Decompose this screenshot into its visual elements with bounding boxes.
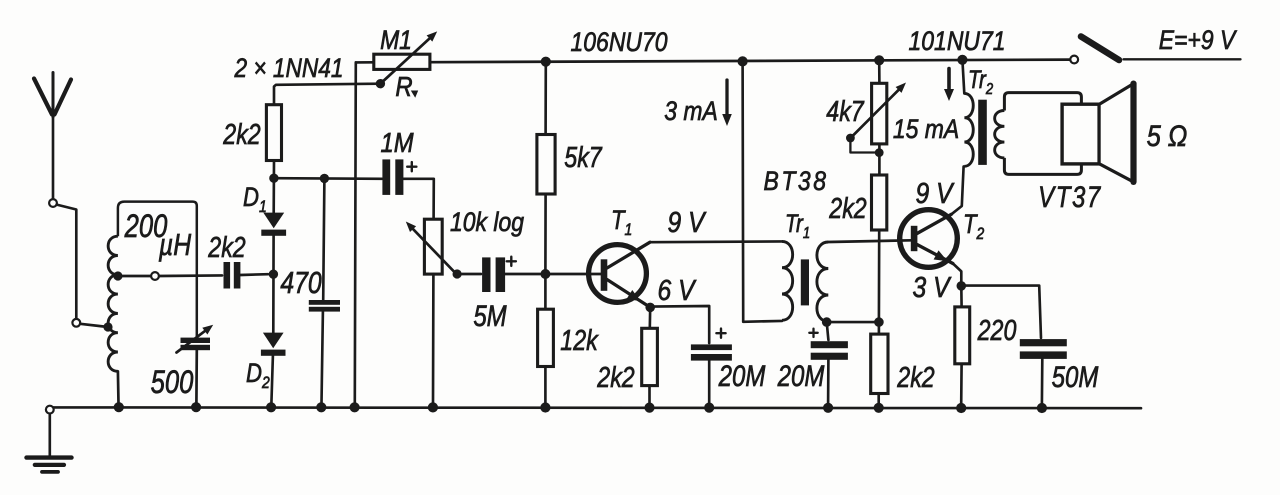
label D1 xyxy=(243,183,267,216)
wire Tr1 secondary to T2 base xyxy=(828,240,911,242)
svg-text:3 mA: 3 mA xyxy=(664,96,718,126)
svg-text:4k7: 4k7 xyxy=(826,94,865,127)
wire rail to E terminal xyxy=(1124,58,1241,60)
svg-text:9 V: 9 V xyxy=(668,206,708,238)
svg-text:5M: 5M xyxy=(473,298,507,332)
node rail coil xyxy=(114,402,124,412)
node coil tap upper xyxy=(113,271,159,280)
wire diode line middle xyxy=(272,236,275,333)
capacitor 2k2 coupling xyxy=(159,262,268,289)
label E=+9V xyxy=(1159,25,1238,55)
wire M1 branch vertical xyxy=(355,62,356,403)
label VT37 xyxy=(1038,179,1102,213)
label R4 xyxy=(395,70,418,102)
label 106NU70 xyxy=(571,27,668,57)
transformer Tr2 core xyxy=(978,100,987,165)
svg-text:2 × 1NN41: 2 × 1NN41 xyxy=(234,53,344,83)
resistor 2k2 detector load xyxy=(266,105,281,161)
wire 3V node to 50M xyxy=(961,286,1041,338)
label Tr2 xyxy=(968,65,993,98)
wire 1M to potentiometer xyxy=(403,179,433,219)
node pot wiper xyxy=(453,269,462,278)
node rail 5k7 xyxy=(541,57,551,67)
node rail 12k xyxy=(540,402,550,412)
wire emitter to 2k2 xyxy=(648,307,651,328)
wire 3V node to 220 xyxy=(960,286,963,307)
resistor 4k7 variable xyxy=(853,83,906,144)
label 2k2 lower xyxy=(896,360,935,393)
wire 2k2 top to R4 node xyxy=(274,84,380,105)
ground terminal xyxy=(46,406,54,456)
node rail 20M second xyxy=(823,403,833,413)
wire 5k7 to base node xyxy=(544,194,547,274)
label 2k2 resistor top xyxy=(222,117,261,150)
wire rail to 5k7 xyxy=(544,62,547,135)
svg-text:15 mA: 15 mA xyxy=(893,114,959,144)
wire T1 collector 9V xyxy=(650,240,782,243)
svg-text:5 Ω: 5 Ω xyxy=(1147,119,1188,152)
node 470 junction on diode line xyxy=(269,270,278,279)
svg-text:2k2: 2k2 xyxy=(222,117,261,150)
svg-text:101NU71: 101NU71 xyxy=(909,26,1006,56)
svg-text:VT37: VT37 xyxy=(1038,179,1102,213)
label 20M second xyxy=(777,358,825,392)
wire coil bottom to ground rail xyxy=(117,371,120,403)
label 2x1NN41 xyxy=(234,53,344,83)
capacitor 5M electrolytic xyxy=(462,257,541,292)
wire T2 collector to Tr2 xyxy=(952,167,964,215)
label 5 ohm xyxy=(1147,119,1188,152)
resistor 5k7 xyxy=(537,135,555,195)
diode D2 xyxy=(261,333,286,356)
node rail 2k2 lower xyxy=(874,403,884,413)
wire rail to Tr2 primary xyxy=(962,60,964,94)
wire 2k2 to ground rail xyxy=(648,386,651,404)
node rail varcap xyxy=(191,402,201,412)
capacitor 20M first xyxy=(691,329,732,361)
svg-text:9 V: 9 V xyxy=(916,177,956,209)
label M1 xyxy=(380,25,412,55)
wire detector node horizontal xyxy=(274,177,382,180)
node Tr1 secondary bottom xyxy=(822,317,832,327)
svg-text:BT38: BT38 xyxy=(763,166,828,196)
label 3V xyxy=(913,271,953,303)
node T1 base xyxy=(540,269,550,279)
switch S1 xyxy=(1070,37,1119,64)
wire 2k2 lower to ground rail xyxy=(877,394,880,404)
potentiometer 10k log xyxy=(406,219,455,274)
label 220 xyxy=(977,313,1017,346)
wire 12k to ground rail xyxy=(544,367,547,404)
svg-text:2k2: 2k2 xyxy=(896,360,935,393)
svg-text:12k: 12k xyxy=(560,323,599,356)
label 6V xyxy=(658,274,698,306)
wire 470 cap to ground rail xyxy=(322,312,323,404)
node rail Tr2 xyxy=(957,55,967,65)
label 15 mA xyxy=(893,114,959,144)
wire base node to 12k xyxy=(544,274,547,309)
transformer Tr2 secondary xyxy=(995,111,1005,158)
wire varcap to ground rail xyxy=(195,350,198,403)
svg-text:500: 500 xyxy=(151,365,194,400)
wire 4k7 to 2k2 bias xyxy=(878,144,881,175)
svg-text:20M: 20M xyxy=(718,358,766,392)
diode D1 xyxy=(261,213,286,236)
node rail 2k2 emitter xyxy=(644,403,654,413)
node rail 50M xyxy=(1037,403,1047,413)
resistor 2k2 emitter xyxy=(642,328,658,385)
label 4k7 xyxy=(826,94,865,127)
svg-text:50M: 50M xyxy=(1052,359,1099,393)
label BT38 xyxy=(763,166,828,196)
label T1 xyxy=(611,206,632,239)
node 4k7 wiper tap xyxy=(846,134,884,157)
label 50M xyxy=(1052,359,1099,393)
label 200 xyxy=(124,209,168,244)
label Tr1 xyxy=(785,209,810,242)
transformer Tr1 core xyxy=(801,259,809,305)
resistor 12k xyxy=(538,309,554,366)
node rail 20M first xyxy=(704,403,714,413)
wire Tr1 secondary bottom to divider xyxy=(827,321,879,324)
svg-text:2k2: 2k2 xyxy=(828,191,867,224)
wire 50M to ground rail xyxy=(1041,359,1044,404)
label 10k log xyxy=(450,207,524,237)
transistor T1 xyxy=(589,242,650,306)
wire 2k2 bottom to diode junction xyxy=(273,161,276,179)
label 9V collector T1 xyxy=(668,206,708,238)
coil L1 200uH shield box xyxy=(118,202,197,338)
wire top junction to 470 cap xyxy=(323,178,324,300)
wire 220 to ground rail xyxy=(960,364,963,404)
transformer Tr1 secondary xyxy=(817,242,828,322)
svg-text:M1: M1 xyxy=(380,25,412,55)
label D2 xyxy=(246,359,270,392)
label 9V T2 xyxy=(916,177,956,209)
node rail 470 xyxy=(316,402,326,412)
label uH xyxy=(158,227,192,261)
svg-text:20M: 20M xyxy=(777,358,825,392)
wire 20M second to ground rail xyxy=(827,360,830,404)
node diode top junction xyxy=(269,174,278,183)
capacitor 20M second xyxy=(809,322,848,360)
node rail M1 branch xyxy=(350,402,360,412)
wire pot bottom to ground rail xyxy=(432,274,435,403)
node 470 top junction xyxy=(320,174,329,183)
node R4 wiper xyxy=(376,79,385,88)
resistor 220 xyxy=(955,307,970,364)
transistor T2 xyxy=(900,210,958,268)
wire diode line upper xyxy=(272,178,275,213)
node T2 emitter 3V xyxy=(957,281,967,291)
wire T2 emitter to 3V node xyxy=(953,264,961,282)
label 12k xyxy=(560,323,599,356)
resistor 2k2 lower xyxy=(871,334,888,393)
label 500 xyxy=(151,365,194,400)
label 470 xyxy=(280,265,322,299)
transformer Tr1 primary xyxy=(782,241,793,320)
current arrow 15mA xyxy=(944,69,954,102)
label 2k2 capacitor xyxy=(207,230,246,263)
node rail pot xyxy=(428,402,438,412)
antenna xyxy=(34,73,71,207)
svg-text:470: 470 xyxy=(280,265,322,299)
label 1M xyxy=(380,126,413,158)
wire base node to T1 xyxy=(545,273,601,276)
meter M1 (R4 body) xyxy=(374,54,430,69)
capacitor 50M xyxy=(1020,339,1067,359)
label 5M xyxy=(473,298,507,332)
label 3 mA xyxy=(664,96,718,126)
svg-text:2k2: 2k2 xyxy=(207,230,246,263)
speaker VT37 coil loop xyxy=(1004,93,1081,175)
node rail D2 xyxy=(266,402,276,412)
node coil tap lower xyxy=(103,322,112,331)
resistor 2k2 bias xyxy=(872,175,887,230)
node rail 4k7 xyxy=(874,55,884,65)
svg-text:6 V: 6 V xyxy=(658,274,698,306)
R4 wiper arrow xyxy=(380,31,437,83)
svg-text:2k2: 2k2 xyxy=(596,360,635,393)
coil L1 winding xyxy=(108,236,118,371)
wire 3mA branch xyxy=(743,61,782,321)
label 2k2 bias xyxy=(828,191,867,224)
current arrow 3mA xyxy=(722,80,732,126)
capacitor 1M electrolytic xyxy=(382,159,416,195)
svg-text:1M: 1M xyxy=(380,126,413,158)
node divider Tr1 junction xyxy=(874,317,884,327)
svg-text:µH: µH xyxy=(158,227,192,261)
wire diode line lower xyxy=(271,356,273,404)
transformer Tr2 primary xyxy=(964,93,973,166)
label 101NU71 xyxy=(909,26,1006,56)
svg-text:3 V: 3 V xyxy=(913,271,953,303)
wire antenna to coil tap xyxy=(57,205,108,327)
svg-text:5k7: 5k7 xyxy=(564,140,603,173)
svg-text:E=+9 V: E=+9 V xyxy=(1159,25,1238,55)
label T2 xyxy=(963,210,985,243)
ground symbol xyxy=(27,458,72,472)
node rail 220 xyxy=(956,403,966,413)
label 5k7 xyxy=(564,140,603,173)
top power rail xyxy=(430,60,1071,63)
wire 20M first to ground rail xyxy=(708,361,711,404)
bottom ground rail xyxy=(50,406,1141,409)
wire to M1 left terminal xyxy=(356,61,374,64)
svg-text:10k log: 10k log xyxy=(450,207,524,237)
wire rail to 4k7 xyxy=(878,60,881,83)
node T1 emitter 6V xyxy=(645,303,655,313)
wire junction to 2k2 lower xyxy=(878,322,881,334)
speaker magnet xyxy=(1062,104,1099,164)
capacitor 470 xyxy=(309,300,340,312)
wire 2k2 bias to Tr1 node xyxy=(878,230,881,322)
svg-text:220: 220 xyxy=(977,313,1017,346)
label 20M first xyxy=(718,358,766,392)
svg-text:R: R xyxy=(395,70,412,102)
variable capacitor 500pF xyxy=(177,325,214,353)
label 2k2 emitter xyxy=(596,360,635,393)
speaker cone xyxy=(1099,84,1133,182)
wire 6V node to 20M cap xyxy=(650,306,709,343)
svg-text:106NU70: 106NU70 xyxy=(571,27,668,57)
node rail 3mA branch xyxy=(738,56,748,66)
